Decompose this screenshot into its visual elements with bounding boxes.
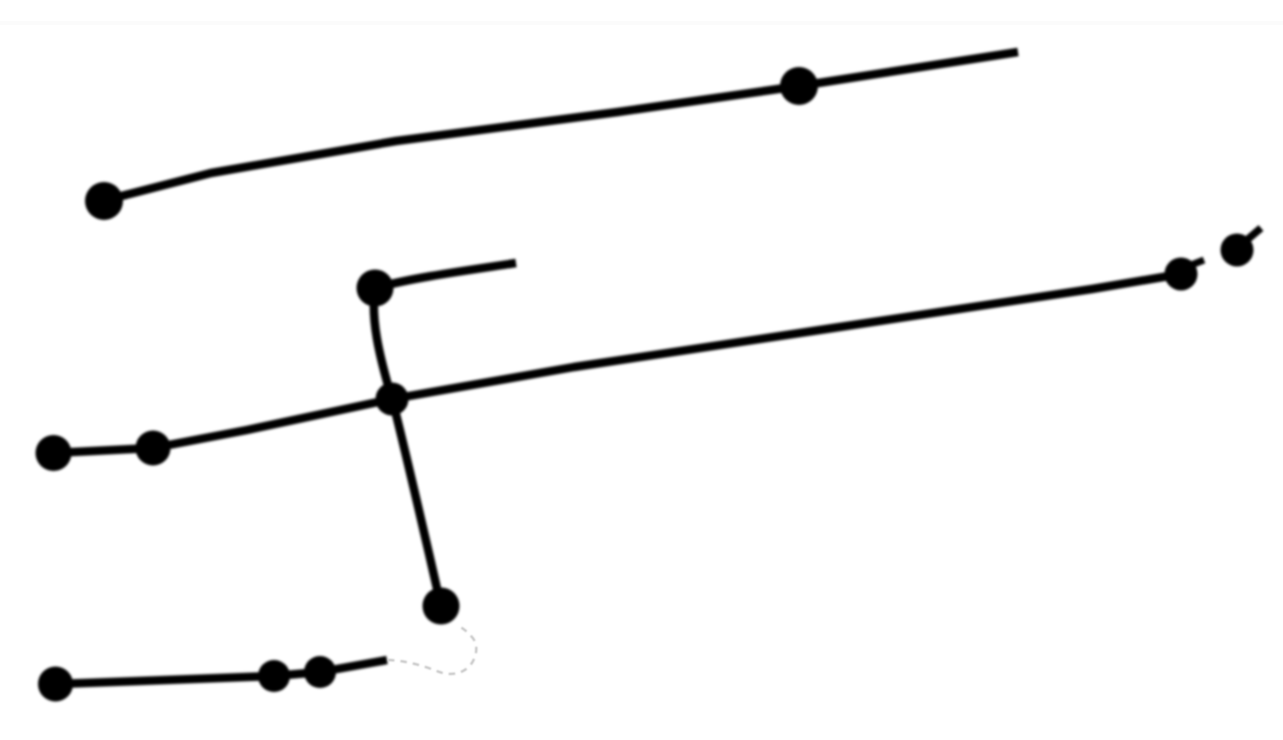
wire C: vertical stroke through junction	[374, 291, 441, 606]
node B3 with small tail	[1165, 258, 1205, 291]
node B2	[136, 431, 171, 466]
node E2	[258, 660, 290, 692]
node A1	[85, 182, 123, 220]
dashed connector curve	[388, 627, 476, 674]
node C2	[423, 588, 460, 625]
faint horizontal band near top	[0, 21, 1283, 25]
wire D: short stroke from node C1	[380, 263, 516, 287]
node E1	[38, 667, 73, 702]
node C1	[357, 270, 394, 307]
node B4 with small tail	[1221, 228, 1262, 267]
wire B: long middle diagonal stroke	[53, 274, 1181, 453]
junction node J	[376, 383, 409, 416]
node B1	[36, 435, 72, 471]
wire E: bottom stroke	[57, 660, 387, 684]
wire A: long top stroke	[106, 52, 1018, 200]
node A2	[780, 67, 818, 105]
node E3	[304, 656, 336, 688]
